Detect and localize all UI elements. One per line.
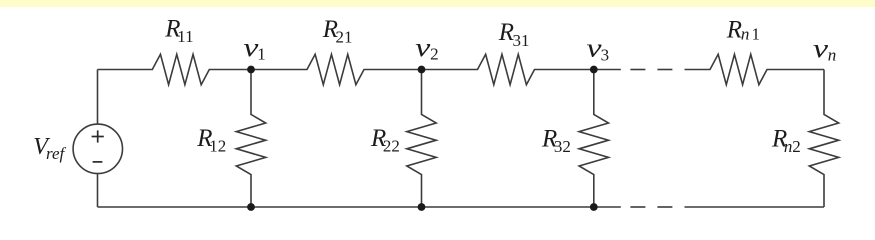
svg-text:3: 3 <box>601 46 610 65</box>
svg-text:R: R <box>726 17 742 44</box>
svg-text:2: 2 <box>792 137 801 156</box>
svg-text:ref: ref <box>46 144 67 163</box>
svg-text:21: 21 <box>336 28 353 47</box>
svg-text:2: 2 <box>430 45 439 64</box>
svg-text:1: 1 <box>257 45 266 64</box>
svg-text:32: 32 <box>554 137 571 156</box>
svg-text:31: 31 <box>513 31 530 50</box>
svg-text:ν: ν <box>813 34 829 63</box>
svg-text:22: 22 <box>383 137 400 156</box>
svg-text:11: 11 <box>177 27 193 46</box>
svg-text:n: n <box>828 45 837 64</box>
svg-text:n: n <box>741 25 750 44</box>
svg-text:ν: ν <box>415 33 431 62</box>
svg-text:1: 1 <box>752 25 761 44</box>
svg-text:12: 12 <box>209 136 226 155</box>
svg-text:n: n <box>784 137 793 156</box>
